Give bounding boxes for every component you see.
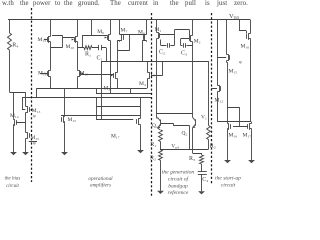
- svg-text:M₁₀: M₁₀: [66, 44, 75, 50]
- svg-text:just: just: [216, 0, 227, 7]
- svg-text:M₂: M₂: [194, 39, 201, 45]
- svg-text:C₂: C₂: [159, 50, 165, 56]
- svg-text:R₂: R₂: [150, 156, 156, 162]
- svg-text:M₇: M₇: [121, 28, 128, 34]
- svg-text:M₁₅: M₁₅: [68, 117, 77, 123]
- svg-text:circuit of: circuit of: [168, 176, 190, 183]
- svg-text:M₃: M₃: [103, 86, 110, 92]
- svg-text:M₁₇: M₁₇: [243, 133, 252, 139]
- svg-text:power: power: [33, 0, 51, 7]
- svg-text:is: is: [205, 0, 210, 7]
- svg-text:to: to: [55, 0, 61, 7]
- svg-text:DD: DD: [234, 15, 240, 20]
- svg-text:M₁₆: M₁₆: [229, 133, 238, 139]
- svg-text:R₁: R₁: [85, 52, 91, 58]
- svg-text:bandgap: bandgap: [168, 184, 188, 190]
- svg-text:R₃: R₃: [189, 156, 195, 162]
- svg-text:Q₂: Q₂: [182, 131, 188, 137]
- svg-text:M₁₇: M₁₇: [111, 134, 120, 140]
- svg-text:C₃: C₃: [181, 51, 187, 57]
- svg-text:The: The: [110, 0, 121, 7]
- svg-text:M₁₄: M₁₄: [10, 113, 19, 119]
- svg-text:pull: pull: [185, 0, 196, 7]
- svg-text:φ: φ: [33, 140, 36, 145]
- svg-text:the: the: [20, 0, 29, 7]
- svg-text:w.th: w.th: [2, 0, 14, 7]
- svg-text:Q₁: Q₁: [152, 123, 158, 129]
- svg-text:M₁₂: M₁₂: [215, 98, 224, 104]
- svg-text:V₁: V₁: [201, 115, 207, 121]
- svg-text:M₁₈: M₁₈: [38, 71, 47, 77]
- svg-text:zero.: zero.: [234, 0, 248, 7]
- svg-text:C₁: C₁: [97, 56, 103, 62]
- svg-text:M₁₉: M₁₉: [80, 71, 89, 77]
- svg-text:φ: φ: [33, 113, 36, 118]
- svg-text:M₄: M₄: [139, 81, 146, 87]
- svg-text:M₈: M₈: [138, 30, 145, 36]
- svg-text:the: the: [64, 0, 73, 7]
- svg-text:the generation: the generation: [162, 170, 195, 176]
- svg-text:R₂: R₂: [210, 144, 216, 150]
- svg-text:M₁: M₁: [155, 27, 162, 33]
- svg-text:M₆: M₆: [97, 29, 104, 35]
- svg-text:operational: operational: [88, 176, 113, 182]
- svg-text:reference: reference: [168, 189, 189, 196]
- svg-text:R₁: R₁: [150, 142, 156, 148]
- svg-text:C₄: C₄: [202, 177, 208, 183]
- svg-text:amplifiers: amplifiers: [90, 182, 111, 189]
- svg-text:M₁₅: M₁₅: [229, 69, 238, 75]
- svg-text:φ: φ: [239, 59, 242, 64]
- svg-text:ground.: ground.: [78, 0, 100, 7]
- svg-text:M₁₆: M₁₆: [241, 44, 250, 50]
- svg-text:M₁₁: M₁₁: [38, 37, 47, 43]
- svg-text:in: in: [153, 0, 159, 7]
- svg-text:the: the: [170, 0, 179, 7]
- svg-text:the start-up: the start-up: [215, 176, 241, 182]
- svg-text:current: current: [128, 0, 148, 7]
- svg-text:the bias: the bias: [5, 177, 21, 182]
- svg-text:R₄: R₄: [12, 43, 18, 49]
- svg-text:circuit: circuit: [221, 183, 236, 189]
- svg-text:circuit: circuit: [6, 184, 19, 189]
